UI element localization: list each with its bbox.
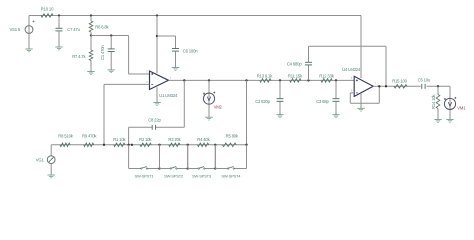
label R10 10 [41, 6, 54, 11]
switch SW-SPST4 [215, 145, 246, 169]
resistor R3 [169, 143, 180, 147]
label C8 22p [148, 118, 161, 123]
pin numbers U4 [351, 76, 377, 93]
wire U4 V- to ground [360, 93, 362, 108]
resistor R15 [394, 85, 407, 89]
label SW-SPST4 [221, 174, 241, 179]
svg-text:U4 LM324: U4 LM324 [342, 67, 361, 72]
label VM2 [214, 104, 223, 109]
ground of VG1 [48, 175, 55, 178]
label R7 4.7k [72, 54, 86, 59]
svg-text:C6 100n: C6 100n [183, 49, 198, 54]
node R6-R7 junction [90, 34, 92, 36]
label R6 6.8k [95, 24, 109, 29]
resistor R8 [60, 143, 70, 147]
resistor R7 [89, 36, 93, 72]
label R3 20k [168, 137, 181, 142]
voltage generator VG1 [47, 145, 55, 175]
svg-text:R14 10k: R14 10k [431, 94, 436, 109]
ground of C7 [55, 47, 62, 50]
label R11 15k [288, 73, 303, 78]
label U4 LM324 [342, 67, 361, 72]
svg-text:R5 80k: R5 80k [226, 134, 239, 139]
label C5 10u [418, 77, 431, 82]
resistor R11 [290, 79, 301, 83]
wire U1 inverting input [104, 84, 150, 144]
svg-text:C4 680p: C4 680p [287, 61, 302, 66]
svg-text:R7 4.7k: R7 4.7k [72, 54, 86, 59]
node U1 supply tap [156, 14, 158, 16]
svg-text:SW-SPST3: SW-SPST3 [192, 174, 212, 179]
ground of VM2 [205, 117, 212, 120]
resistor R14 [436, 86, 440, 119]
label R1 10k [113, 137, 126, 142]
capacitor C5 [421, 84, 427, 90]
label VG1 [36, 158, 45, 163]
resistor R10 [41, 14, 53, 18]
svg-text:VM1: VM1 [457, 106, 466, 111]
node C8 top tap [183, 79, 185, 81]
switch SW-SPST3 [188, 145, 216, 169]
svg-text:R9 470k: R9 470k [82, 134, 97, 139]
capacitor C4 [305, 46, 386, 86]
label R12 33k [319, 73, 334, 78]
capacitor C8 [129, 80, 185, 144]
ground of C6 [172, 68, 179, 71]
node C8 bottom junction [127, 144, 129, 146]
svg-text:SW-SPST1: SW-SPST1 [135, 174, 155, 179]
svg-text:R1 10k: R1 10k [113, 137, 126, 142]
wire U1 V+ supply [156, 16, 158, 74]
label R9 470k [82, 134, 97, 139]
capacitor C1 [108, 36, 115, 70]
capacitor C2 [277, 80, 284, 114]
svg-text:U1 LM324: U1 LM324 [159, 93, 178, 98]
resistor R2 [140, 143, 151, 147]
ground of C2 [276, 115, 283, 118]
ground of U1 [153, 103, 160, 106]
svg-text:R6 6.8k: R6 6.8k [95, 24, 109, 29]
svg-text:R12 33k: R12 33k [319, 73, 334, 78]
svg-text:C3 68p: C3 68p [316, 99, 329, 104]
wire gain network riser [246, 80, 248, 144]
wire U1 V- to ground [156, 87, 158, 102]
label R4 40k [197, 137, 210, 142]
label VM1 [457, 106, 466, 111]
label C3 68p [316, 99, 329, 104]
resistor R13 [260, 79, 271, 83]
switch SW-SPST1 [129, 145, 160, 169]
svg-text:C2 820p: C2 820p [255, 99, 270, 104]
label C7 47u [67, 27, 80, 32]
switch SW-SPST2 [160, 145, 188, 169]
svg-text:R8 510k: R8 510k [58, 134, 73, 139]
resistor R4 [198, 143, 209, 147]
node C4 tap [307, 79, 309, 81]
resistor R6 [89, 16, 93, 36]
label SW-SPST2 [164, 174, 184, 179]
label R13 9.1k [257, 73, 273, 78]
node C7 junction [58, 14, 60, 16]
label R14 10k [431, 94, 436, 109]
capacitor C3 [333, 80, 340, 114]
svg-text:VM2: VM2 [214, 104, 223, 109]
node SW3-SW4 junction [214, 167, 216, 169]
ground of VS1 [25, 49, 32, 52]
wire U4 output [373, 85, 450, 87]
ground of U4 [357, 108, 364, 111]
node R4-R5 junction [214, 144, 216, 146]
wire to U1 noninverting input [129, 36, 150, 75]
node R2-R3 junction [158, 144, 160, 146]
voltmeter VM2 [203, 80, 215, 117]
wire top 5V rail [29, 15, 361, 17]
resistor R9 [84, 143, 94, 147]
node SW1 junction [131, 144, 133, 146]
svg-text:C1 470n: C1 470n [100, 45, 105, 60]
svg-text:R13 9.1k: R13 9.1k [257, 73, 273, 78]
label U1 LM324 [159, 93, 178, 98]
node C6 tap [156, 35, 158, 37]
label C1 470n [100, 45, 105, 60]
ground of VM1 [446, 119, 453, 122]
node R6 junction [90, 14, 92, 16]
label C2 820p [255, 99, 270, 104]
node VM2 tap [208, 79, 210, 81]
voltage source VS1 5V [25, 16, 34, 49]
node chain right junction [245, 144, 247, 146]
wire U4 V+ supply [360, 16, 362, 79]
node C3 tap [335, 79, 337, 81]
svg-text:SW-SPST2: SW-SPST2 [164, 174, 184, 179]
svg-text:R4 40k: R4 40k [197, 137, 210, 142]
node C4 output junction [385, 85, 387, 87]
label R5 80k [226, 134, 239, 139]
svg-text:R11 15k: R11 15k [288, 73, 303, 78]
label VS1 5 [10, 27, 21, 32]
node output network tap [245, 79, 247, 81]
svg-text:C5 10u: C5 10u [418, 77, 431, 82]
node feedback junction [378, 85, 380, 87]
label R8 510k [58, 134, 73, 139]
node SW2-SW3 junction [187, 167, 189, 169]
wire U4 feedback loop [350, 86, 379, 103]
label SW-SPST1 [135, 174, 155, 179]
capacitor C6 [157, 36, 179, 67]
resistor R1 [114, 143, 125, 147]
ground of R14 [434, 120, 441, 123]
resistor R12 [321, 79, 332, 83]
wire U1 output rail [169, 79, 355, 81]
svg-text:VS1 5: VS1 5 [10, 27, 21, 32]
svg-text:C8 22p: C8 22p [148, 118, 161, 123]
ground of C3 [332, 115, 339, 118]
op-amp U1 [150, 71, 169, 90]
svg-text:R15 100: R15 100 [392, 78, 407, 83]
node C1 junction [110, 34, 112, 36]
svg-text:R10 10: R10 10 [41, 6, 54, 11]
capacitor C7 [56, 16, 63, 47]
svg-text:SW-SPST4: SW-SPST4 [221, 174, 241, 179]
svg-text:VG1: VG1 [36, 158, 45, 163]
voltmeter VM1 [444, 86, 456, 119]
node R14 tap [437, 85, 439, 87]
ground of C1 [108, 70, 115, 73]
label C6 100n [183, 49, 198, 54]
wire divider tap [91, 35, 129, 37]
label R15 100 [392, 78, 407, 83]
label C4 680p [287, 61, 302, 66]
label SW-SPST3 [192, 174, 212, 179]
svg-text:R2 10k: R2 10k [139, 137, 152, 142]
svg-text:R3 20k: R3 20k [168, 137, 181, 142]
svg-text:C7 47u: C7 47u [67, 27, 80, 32]
node SW1-SW2 junction [158, 167, 160, 169]
node feedback tap [103, 144, 105, 146]
label R2 10k [139, 137, 152, 142]
resistor R5 [222, 143, 236, 147]
pin numbers U1 [146, 70, 172, 84]
node C2 tap [279, 79, 281, 81]
ground of R7 [87, 72, 94, 75]
wire bottom rail [51, 144, 246, 146]
node R3-R4 junction [187, 144, 189, 146]
op-amp U4 [354, 76, 373, 96]
